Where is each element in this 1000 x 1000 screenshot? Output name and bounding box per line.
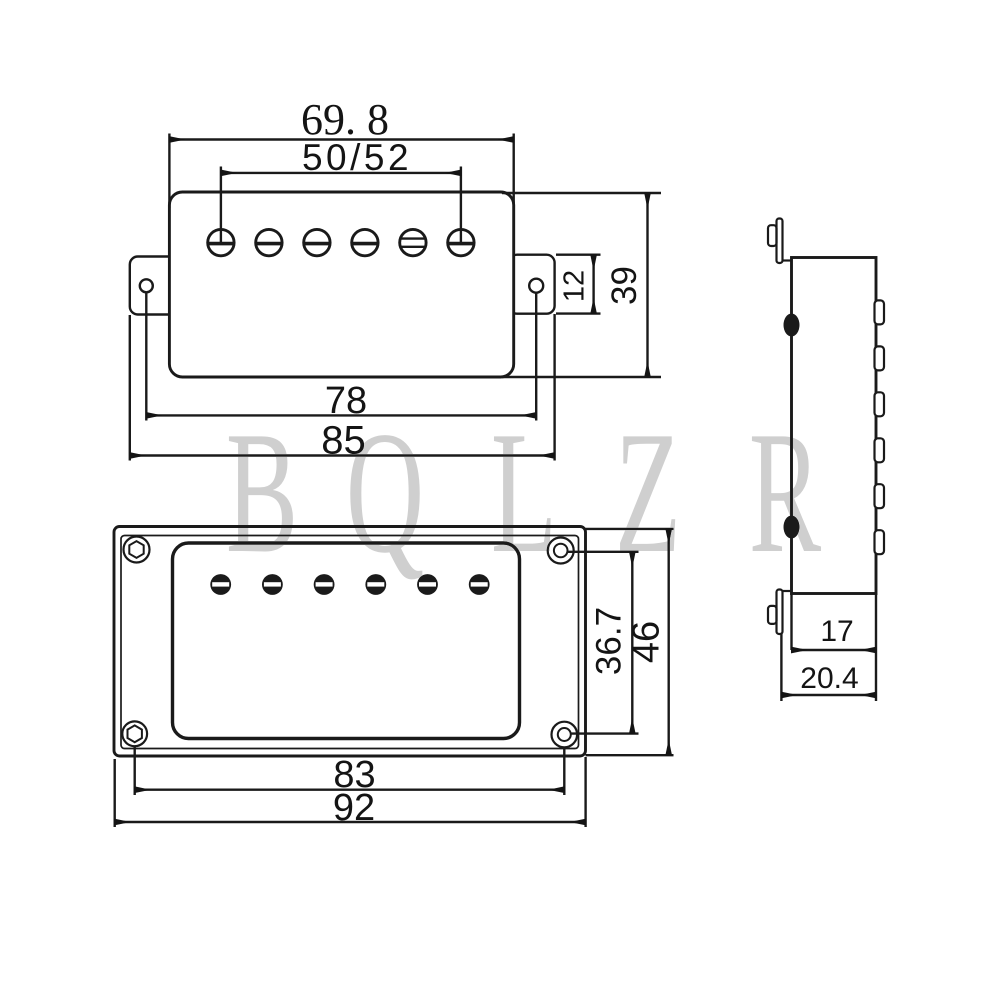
svg-text:39: 39 [605, 266, 644, 305]
dimension line 12 [592, 255, 594, 314]
svg-text:Z: Z [615, 396, 681, 590]
right pole tab T4 [875, 438, 885, 462]
extension lines 36.7 [568, 552, 639, 734]
corner screw TR [548, 538, 574, 564]
extension lines 17 [792, 594, 877, 702]
left mounting ear [130, 257, 176, 315]
svg-text:Q: Q [346, 396, 424, 590]
corner screw TL [124, 537, 150, 563]
extension line 20.4 [780, 634, 782, 701]
ring outer edge [114, 527, 586, 757]
extension lines 78 [146, 293, 536, 421]
watermark BQLZR [226, 396, 821, 590]
left ear screw hole [140, 279, 153, 292]
right pole tab T1 [875, 300, 885, 324]
svg-text:L: L [491, 396, 557, 590]
dimension line 46 [668, 529, 670, 755]
top bracket screw [768, 225, 777, 246]
dimension line 50/52 [221, 172, 461, 174]
pole screw P1 [208, 229, 234, 255]
extension lines 12 [556, 255, 601, 314]
dimension line 20.4 [781, 694, 876, 696]
dimension line 69.8 [169, 138, 513, 140]
bottom bracket screw [768, 606, 777, 624]
dimension line 39 [646, 193, 648, 377]
ring pole R5 [417, 574, 438, 595]
right pole tab T6 [875, 530, 885, 554]
pole screw P2 [256, 229, 282, 255]
pickup bobbin in ring [173, 543, 520, 739]
dimension line 85 [130, 454, 555, 456]
right pole tab T2 [875, 346, 885, 370]
corner screw BL [122, 721, 147, 746]
svg-text:36.7: 36.7 [590, 607, 629, 675]
ring inner lip [121, 536, 579, 749]
extension lines 85 [130, 314, 555, 461]
svg-text:B: B [226, 396, 298, 590]
ring pole R1 [210, 574, 231, 595]
dimension line 36.7 [631, 552, 633, 734]
extension lines 83 [135, 746, 565, 795]
ring pole R3 [314, 574, 335, 595]
svg-text:46: 46 [625, 621, 667, 663]
pole screw P4 [352, 229, 378, 255]
right pole tab T5 [875, 484, 885, 508]
dimension line 83 [135, 789, 565, 791]
pickup body [169, 192, 513, 377]
right ear screw hole [529, 279, 543, 293]
ring pole R4 [365, 574, 386, 595]
left mount bump 2 [784, 516, 800, 539]
ring pole R2 [262, 574, 283, 595]
dimension line 92 [115, 821, 586, 823]
svg-text:92: 92 [333, 787, 375, 829]
corner screw BR [552, 722, 578, 748]
left mount bump 1 [784, 314, 800, 337]
side body [792, 258, 877, 594]
svg-text:12: 12 [558, 270, 590, 302]
pole screw P5 double slot [400, 229, 426, 255]
svg-text:20.4: 20.4 [800, 662, 858, 695]
extension lines 92 [115, 757, 586, 827]
svg-text:R: R [749, 396, 821, 590]
right pole tab T3 [875, 392, 885, 416]
dimension line 78 [146, 414, 536, 416]
extension lines 69.8 [169, 134, 513, 209]
pole screw P3 [304, 229, 330, 255]
bottom bracket [777, 590, 792, 635]
ring pole R6 [469, 574, 490, 595]
top bracket [777, 219, 792, 264]
extension lines 39 [502, 193, 661, 377]
extension lines 46 [584, 529, 674, 755]
dimension line 17 [792, 649, 877, 651]
extension lines 50/52 [221, 167, 461, 243]
svg-text:50/52: 50/52 [302, 137, 412, 178]
svg-text:17: 17 [820, 615, 853, 648]
right mounting ear [509, 255, 555, 314]
pole screw P6 [448, 229, 474, 255]
